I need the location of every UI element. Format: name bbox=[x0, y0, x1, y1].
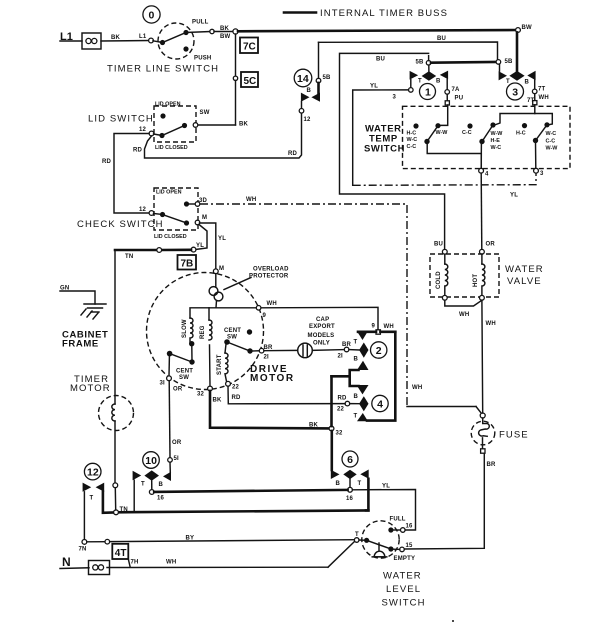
water level switch full contact bbox=[388, 527, 400, 532]
node 3D bbox=[195, 198, 207, 206]
svg-text:W-W: W-W bbox=[491, 131, 504, 137]
svg-text:BK: BK bbox=[111, 35, 121, 41]
overload protector pointer bbox=[224, 278, 251, 290]
wire contact 3 B leg to node 7T bbox=[534, 80, 536, 89]
svg-text:TN: TN bbox=[125, 254, 133, 260]
svg-text:32: 32 bbox=[336, 431, 344, 437]
svg-text:OR: OR bbox=[173, 387, 183, 393]
lid switch open contact dot bbox=[160, 113, 165, 118]
temp switch 7T interior wiring bbox=[495, 105, 553, 125]
wire contact 6 T leg to TN line bbox=[366, 479, 368, 511]
svg-text:WH: WH bbox=[166, 560, 176, 566]
svg-text:6: 6 bbox=[347, 454, 353, 466]
svg-text:H-C: H-C bbox=[407, 131, 417, 137]
labels W-W H-E W-C bbox=[491, 131, 504, 151]
svg-text:T: T bbox=[418, 79, 422, 85]
svg-text:12: 12 bbox=[139, 207, 147, 213]
svg-text:5I: 5I bbox=[174, 456, 180, 462]
circle terminal 1 bbox=[420, 84, 436, 100]
wire to cabinet ground bbox=[60, 291, 95, 304]
svg-text:H-E: H-E bbox=[491, 138, 501, 144]
circle terminal 0 bbox=[143, 6, 160, 23]
svg-text:OR: OR bbox=[172, 440, 182, 446]
connector N (plug) bbox=[89, 561, 110, 575]
svg-text:WATER: WATER bbox=[383, 571, 422, 582]
svg-text:PUSH: PUSH bbox=[194, 56, 211, 62]
wire OR to contact 10 bbox=[169, 381, 183, 462]
water level pressure dome bbox=[372, 543, 387, 557]
svg-text:ONLY: ONLY bbox=[313, 341, 330, 347]
svg-text:3: 3 bbox=[512, 87, 518, 99]
svg-text:SW: SW bbox=[179, 375, 189, 381]
water temp switch dashed box bbox=[403, 106, 571, 168]
wire contact 6 diamond stem bbox=[349, 479, 351, 487]
node RD at contact 4 bbox=[337, 396, 359, 413]
wire WH valve out join bbox=[445, 300, 482, 318]
node 3 temp switch bbox=[534, 168, 544, 177]
temp switch section A pivot to node 4 bbox=[427, 143, 481, 168]
wire L1 stub bbox=[60, 40, 82, 42]
wire 5B to contact 14 bbox=[317, 83, 320, 94]
wire contact 12 right leg to TN line bbox=[103, 492, 114, 513]
node 16 water level bbox=[401, 524, 414, 533]
node YL on TN line bbox=[191, 243, 204, 252]
label OVERLOAD PROTECTOR bbox=[249, 267, 289, 280]
contact 10 B triangle bbox=[159, 472, 172, 488]
svg-text:W-C: W-C bbox=[491, 145, 502, 151]
contact 4 B triangle bbox=[354, 385, 369, 400]
wire BR fuse to node 15 bbox=[404, 453, 496, 549]
node 7T on temp switch box bbox=[533, 101, 537, 105]
terminal box 5C bbox=[241, 72, 258, 87]
wire node32 down to contact 6 B bbox=[330, 431, 333, 470]
svg-text:COLD: COLD bbox=[436, 271, 442, 289]
contact 12 left triangle bbox=[83, 483, 94, 502]
wire 16 line to contact 6 bbox=[154, 490, 347, 492]
labels H-C W-C C-C bbox=[407, 131, 418, 151]
wire contact 14 left leg to node 12 bbox=[301, 102, 303, 109]
contact 3 diamond bbox=[509, 71, 524, 81]
svg-text:H-C: H-C bbox=[516, 131, 526, 137]
node BR motor bbox=[259, 345, 273, 361]
node splice on TN line bbox=[157, 248, 162, 253]
svg-text:LEVEL: LEVEL bbox=[386, 584, 421, 595]
svg-text:PROTECTOR: PROTECTOR bbox=[249, 274, 289, 280]
wire WH dash-dot from check switch 3D to fuse bbox=[200, 197, 482, 414]
contact 14 right triangle bbox=[311, 93, 320, 102]
svg-text:16: 16 bbox=[406, 524, 414, 530]
terminal N label bbox=[62, 555, 71, 569]
svg-text:BK: BK bbox=[239, 122, 249, 128]
circle terminal 12 bbox=[84, 463, 101, 480]
timer line switch contacts and arm bbox=[153, 30, 189, 52]
svg-text:WH: WH bbox=[412, 385, 422, 391]
node splice on timer motor rail bbox=[113, 483, 118, 510]
svg-text:TN: TN bbox=[120, 507, 128, 513]
label W-W bbox=[436, 130, 449, 136]
wire N line bbox=[60, 560, 328, 569]
node 5C bbox=[233, 76, 237, 80]
water level switch arm bbox=[359, 538, 394, 552]
svg-text:VALVE: VALVE bbox=[507, 276, 542, 287]
coil REG bbox=[200, 308, 212, 340]
fuse node top bbox=[480, 413, 485, 418]
label WATER TEMP SWITCH bbox=[364, 124, 405, 155]
contact 2 B triangle bbox=[354, 357, 369, 371]
node 32 at contact 6 bbox=[329, 426, 343, 436]
wire TN thick to timer motor rail bbox=[115, 250, 191, 260]
svg-text:EMPTY: EMPTY bbox=[394, 556, 416, 562]
svg-text:WH: WH bbox=[267, 301, 277, 307]
label FUSE bbox=[499, 430, 529, 441]
svg-text:12: 12 bbox=[87, 467, 99, 479]
svg-text:T: T bbox=[355, 532, 359, 538]
svg-text:REG: REG bbox=[200, 325, 206, 339]
lid switch node 12 bbox=[139, 127, 154, 136]
svg-text:3I: 3I bbox=[160, 381, 166, 387]
wire BR to capacitor bbox=[264, 349, 298, 351]
svg-text:T: T bbox=[90, 496, 94, 502]
wire node BR to diamond 2 bbox=[349, 349, 359, 351]
svg-text:SW: SW bbox=[200, 110, 210, 116]
svg-text:SWITCH: SWITCH bbox=[364, 144, 405, 155]
svg-text:BW: BW bbox=[522, 25, 533, 31]
wire contact 1 B leg to node 7A bbox=[446, 79, 448, 89]
node 9 motor bbox=[256, 306, 266, 320]
svg-text:B: B bbox=[336, 481, 341, 487]
lid switch node SW bbox=[193, 110, 210, 127]
wire TN line to contact 6 bbox=[119, 510, 369, 512]
contact 1 T triangle bbox=[410, 71, 422, 85]
label PULL bbox=[192, 20, 209, 26]
svg-text:W-W: W-W bbox=[546, 146, 559, 152]
svg-text:HOT: HOT bbox=[473, 274, 479, 287]
svg-text:YL: YL bbox=[196, 243, 204, 249]
svg-text:FUSE: FUSE bbox=[499, 430, 529, 441]
drive motor dashed circle bbox=[147, 273, 264, 390]
svg-text:YL: YL bbox=[510, 193, 518, 199]
check switch arm bbox=[154, 212, 190, 226]
svg-text:T: T bbox=[358, 481, 362, 487]
svg-text:BR: BR bbox=[487, 462, 497, 468]
label LID SWITCH bbox=[88, 114, 154, 125]
svg-text:YL: YL bbox=[218, 236, 226, 242]
svg-text:BK: BK bbox=[213, 398, 223, 404]
slow coil contact dot bbox=[189, 341, 194, 361]
temp switch section B contacts bbox=[462, 122, 496, 144]
connector L1 (plug) bbox=[82, 33, 101, 49]
svg-text:SWITCH: SWITCH bbox=[382, 598, 426, 609]
circle terminal 10 bbox=[143, 452, 160, 469]
wire YL contact6 16 to water level 16 bbox=[352, 484, 415, 531]
node 16 at contact 10 bbox=[149, 490, 164, 502]
node 9 WH at contact 2 bbox=[372, 324, 394, 335]
label EMPTY bbox=[394, 556, 416, 562]
svg-text:N: N bbox=[62, 555, 71, 569]
coil START bbox=[217, 344, 228, 381]
svg-text:10: 10 bbox=[145, 455, 157, 467]
wire BK motor 32 to node 32 bbox=[210, 391, 329, 429]
node 22 motor bbox=[226, 381, 240, 390]
wire WH motor top line bbox=[190, 301, 378, 330]
temp switch section A wiring from PU bbox=[441, 105, 448, 125]
svg-text:YL: YL bbox=[382, 484, 390, 490]
svg-text:2I: 2I bbox=[338, 354, 344, 360]
water valve cold coil bbox=[436, 254, 448, 295]
svg-text:7T: 7T bbox=[538, 87, 546, 93]
wire RD motor 22 to contact 4 bbox=[228, 386, 345, 404]
contact 3 T triangle bbox=[499, 64, 510, 85]
svg-text:W-C: W-C bbox=[407, 137, 418, 143]
contact 6 diamond bbox=[343, 470, 356, 479]
svg-text:3: 3 bbox=[393, 95, 397, 101]
node M check switch bbox=[195, 215, 207, 225]
svg-text:2: 2 bbox=[376, 345, 382, 357]
contact 4 T triangle bbox=[354, 413, 369, 421]
wire buss down to 7C 5C bbox=[235, 34, 237, 76]
node 12 at contact 14 bbox=[299, 109, 311, 124]
wire YL check switch M to drive motor M bbox=[200, 223, 227, 269]
contact 6 T triangle bbox=[358, 470, 369, 488]
svg-text:BR: BR bbox=[342, 342, 352, 348]
svg-text:9: 9 bbox=[372, 324, 376, 330]
legend: internal timer buss sample line bbox=[284, 11, 316, 14]
wire bracket B2 to B4 bbox=[332, 370, 359, 386]
wire PU to temp switch bbox=[446, 94, 448, 101]
svg-text:WH: WH bbox=[384, 324, 394, 330]
label LID CLOSED bbox=[155, 145, 188, 151]
svg-text:7N: 7N bbox=[79, 547, 87, 553]
svg-text:B: B bbox=[159, 482, 164, 488]
ground symbol bbox=[81, 304, 106, 319]
labels W-C C-C W-W bbox=[546, 131, 559, 152]
wire 7T to temp switch bbox=[534, 94, 536, 101]
svg-text:WATER: WATER bbox=[505, 264, 544, 275]
wire 5B link line contact1 to contact3 bbox=[431, 61, 496, 64]
svg-text:FRAME: FRAME bbox=[62, 339, 99, 350]
wire BK down to lid switch bbox=[198, 81, 249, 128]
label FULL bbox=[390, 517, 406, 523]
svg-text:PULL: PULL bbox=[192, 20, 209, 26]
fuse F1 bbox=[471, 418, 495, 448]
label PUSH bbox=[194, 56, 211, 62]
svg-text:LID CLOSED: LID CLOSED bbox=[155, 145, 188, 151]
svg-text:7A: 7A bbox=[452, 87, 461, 93]
wire capacitor to node BR 2 bbox=[312, 349, 344, 352]
svg-text:4T: 4T bbox=[115, 548, 127, 559]
label DRIVE MOTOR bbox=[250, 364, 295, 384]
svg-text:T: T bbox=[354, 414, 358, 420]
wire timer motor rail bbox=[114, 250, 116, 483]
svg-text:14: 14 bbox=[297, 73, 309, 85]
node OR water valve bbox=[480, 249, 485, 254]
wire YL check switch M to TN junction bbox=[196, 225, 207, 250]
wire WH diagonal to water level switch T bbox=[328, 541, 355, 567]
svg-text:MOTOR: MOTOR bbox=[70, 383, 111, 394]
node 7A PU bbox=[445, 87, 463, 102]
svg-text:CHECK SWITCH: CHECK SWITCH bbox=[77, 219, 164, 230]
label WATER LEVEL SWITCH bbox=[382, 571, 426, 609]
contact 2 T triangle bbox=[354, 331, 369, 346]
svg-text:CENT: CENT bbox=[224, 328, 241, 334]
svg-text:WH: WH bbox=[539, 95, 549, 101]
node 7T WH bbox=[527, 87, 549, 105]
svg-text:7C: 7C bbox=[243, 42, 256, 53]
label LID OPEN (check switch) bbox=[156, 190, 182, 196]
svg-text:7H: 7H bbox=[131, 560, 139, 566]
wire WH valve to fuse bbox=[482, 300, 496, 413]
svg-text:2I: 2I bbox=[264, 355, 270, 361]
contact 14 left triangle bbox=[301, 88, 312, 102]
svg-text:MODELS: MODELS bbox=[308, 333, 335, 339]
node 31 bbox=[160, 376, 172, 387]
wire BU buss branch to 5B nodes bbox=[319, 36, 498, 78]
svg-text:BW: BW bbox=[220, 34, 231, 40]
svg-text:YL: YL bbox=[370, 84, 378, 90]
label CHECK SWITCH bbox=[77, 219, 164, 230]
circle terminal 4 bbox=[372, 395, 388, 411]
svg-text:W-C: W-C bbox=[546, 131, 557, 137]
wire contact 10 T leg bbox=[133, 480, 135, 510]
svg-text:12: 12 bbox=[304, 117, 312, 123]
node 5B at contact 14 bbox=[316, 75, 331, 83]
node 16 at contact 6 bbox=[346, 487, 354, 502]
node cold bottom bbox=[442, 295, 447, 300]
lid switch dashed box bbox=[154, 106, 196, 142]
contact 12 right triangle bbox=[96, 483, 105, 492]
capacitor C1 bbox=[298, 343, 313, 358]
svg-text:BU: BU bbox=[434, 242, 443, 248]
wire node32 up to bracket bbox=[330, 376, 333, 426]
svg-text:5B: 5B bbox=[505, 59, 514, 65]
svg-text:5B: 5B bbox=[416, 60, 425, 66]
label LID CLOSED (check switch) bbox=[154, 234, 187, 240]
svg-text:BU: BU bbox=[376, 57, 385, 63]
water valve hot coil bbox=[473, 254, 485, 295]
svg-text:L1: L1 bbox=[139, 34, 147, 40]
svg-text:32: 32 bbox=[197, 392, 205, 398]
contact 6 B triangle bbox=[331, 470, 341, 487]
svg-text:RD: RD bbox=[288, 151, 298, 157]
svg-text:9: 9 bbox=[263, 313, 267, 319]
svg-text:BY: BY bbox=[186, 536, 195, 542]
internal timer buss thick line bbox=[238, 30, 516, 31]
label LID OPEN (lid switch) bbox=[155, 102, 181, 108]
wire RD lid switch to contact 14 bbox=[133, 113, 302, 158]
contact 1 B triangle bbox=[436, 71, 448, 85]
svg-text:TIMER LINE SWITCH: TIMER LINE SWITCH bbox=[107, 64, 219, 75]
lid switch arm bbox=[154, 123, 188, 138]
svg-text:CAP: CAP bbox=[316, 317, 329, 323]
svg-text:22: 22 bbox=[232, 385, 240, 391]
node BU water valve bbox=[442, 249, 447, 254]
fuse node bottom bbox=[481, 449, 485, 453]
svg-text:B: B bbox=[307, 88, 312, 94]
svg-text:BK: BK bbox=[309, 423, 319, 429]
svg-text:15: 15 bbox=[406, 543, 414, 549]
node BK/BW bbox=[210, 26, 231, 40]
wire BK from L1 connector bbox=[101, 34, 149, 41]
wire contact 12 T leg to node 7N bbox=[83, 492, 85, 540]
svg-text:12: 12 bbox=[139, 127, 147, 133]
water valve dashed box bbox=[430, 254, 499, 297]
wire node9 horizontal bbox=[358, 330, 395, 333]
temp switch section B pivot to node 4 bbox=[480, 143, 482, 168]
svg-text:C-C: C-C bbox=[546, 139, 556, 145]
svg-text:BU: BU bbox=[437, 36, 446, 42]
wire BU contact1 T to water valve cold bbox=[340, 53, 445, 249]
wire BY line bbox=[87, 536, 356, 542]
check switch dashed box bbox=[154, 188, 198, 230]
node 7N bbox=[79, 540, 87, 553]
svg-text:4: 4 bbox=[377, 399, 383, 411]
cent sw lower-left bbox=[167, 351, 195, 381]
node 4 temp switch bbox=[479, 168, 489, 177]
svg-text:B: B bbox=[525, 80, 530, 86]
check switch node 12 bbox=[139, 207, 154, 215]
svg-text:LID OPEN: LID OPEN bbox=[155, 102, 181, 108]
label CABINET FRAME bbox=[62, 330, 108, 350]
svg-text:B: B bbox=[354, 394, 359, 400]
terminal box 4T bbox=[112, 544, 130, 567]
svg-text:M: M bbox=[219, 266, 224, 272]
node 32 motor bbox=[197, 345, 212, 398]
temp switch section C contacts bbox=[516, 122, 550, 143]
node T water level bbox=[354, 532, 359, 542]
stray ink dot bbox=[452, 620, 454, 622]
svg-text:16: 16 bbox=[346, 496, 354, 502]
circle terminal 14 bbox=[294, 69, 312, 87]
svg-text:T: T bbox=[141, 482, 145, 488]
wire to buss junction bbox=[214, 31, 233, 33]
svg-text:CENT: CENT bbox=[176, 369, 193, 375]
svg-text:22: 22 bbox=[337, 407, 345, 413]
svg-text:7B: 7B bbox=[181, 259, 194, 270]
label WATER VALVE bbox=[505, 264, 544, 287]
terminal L1 label bbox=[60, 31, 73, 43]
timer motor coil bbox=[112, 404, 115, 421]
svg-text:B: B bbox=[436, 79, 441, 85]
circle terminal 2 bbox=[371, 342, 387, 358]
timer motor dashed circle bbox=[99, 396, 134, 431]
node on BY at 4T bbox=[105, 539, 110, 544]
svg-text:LID SWITCH: LID SWITCH bbox=[88, 114, 154, 125]
svg-text:B: B bbox=[354, 357, 359, 363]
svg-text:INTERNAL TIMER BUSS: INTERNAL TIMER BUSS bbox=[320, 8, 448, 19]
wire OR node4 to water valve hot bbox=[481, 173, 495, 249]
svg-text:EXPORT: EXPORT bbox=[309, 324, 335, 330]
water level switch dashed circle bbox=[362, 521, 399, 558]
svg-text:WH: WH bbox=[486, 321, 496, 327]
svg-text:FULL: FULL bbox=[390, 517, 406, 523]
wire YL node3 to temp switch 3 bbox=[353, 84, 536, 199]
node 3 YL bbox=[393, 88, 414, 101]
contact 2 diamond bbox=[359, 343, 368, 358]
svg-text:M: M bbox=[202, 215, 207, 221]
circle terminal 6 bbox=[342, 451, 358, 467]
svg-text:5C: 5C bbox=[244, 76, 257, 87]
overload protector bbox=[209, 274, 223, 308]
wire contact 1 T leg to node 3 bbox=[410, 80, 412, 88]
svg-text:W-W: W-W bbox=[436, 130, 449, 136]
svg-text:C-C: C-C bbox=[462, 130, 472, 136]
node PU on temp switch box bbox=[445, 101, 449, 105]
label GN bbox=[60, 286, 69, 292]
svg-text:3: 3 bbox=[540, 171, 544, 177]
wire right leg node9 to contact 4 T bbox=[367, 332, 395, 421]
svg-text:4: 4 bbox=[485, 172, 489, 178]
svg-text:RD: RD bbox=[338, 396, 348, 402]
